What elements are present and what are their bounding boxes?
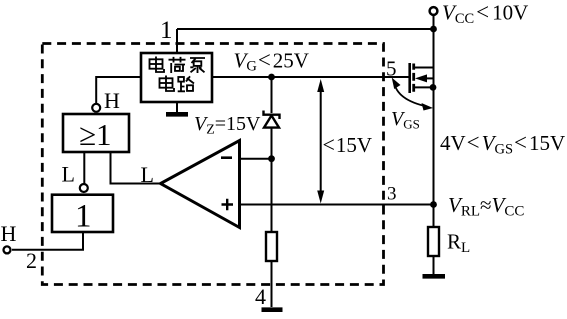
svg-text:2: 2 <box>26 248 37 273</box>
wire buffer to pin 2 terminal <box>12 232 83 250</box>
svg-text:5: 5 <box>386 57 397 81</box>
resistor RL <box>428 227 439 256</box>
terminal pin 2 <box>4 246 11 253</box>
wire resistor to pin4 ground <box>271 261 273 307</box>
junction dot minus/zener <box>268 155 275 162</box>
resistor internal (pin4) <box>266 232 277 261</box>
junction dot Vcc/pin1 <box>430 26 437 33</box>
junction dot source <box>430 84 437 91</box>
MOSFET Q1 gate plate <box>408 63 411 93</box>
ground charge pump (bar) <box>166 112 188 117</box>
zener line upper <box>271 77 273 113</box>
charge pump box U1 <box>141 53 212 102</box>
L bubble <box>80 184 88 192</box>
buffer box 1 <box>52 195 113 232</box>
MOSFET Q1 channel segments <box>412 64 415 92</box>
wire plus input / node 3 <box>240 204 432 206</box>
svg-text:H: H <box>1 221 17 246</box>
荷 (line1) <box>169 57 186 73</box>
zener diode VZ cathode bar <box>264 111 280 120</box>
wire OR to op-amp output <box>111 152 161 184</box>
op-amp plus sign <box>222 199 234 211</box>
zener line lower to resistor <box>271 127 273 232</box>
op-amp U2 triangle <box>161 141 240 228</box>
泵 (line1) <box>190 58 205 73</box>
svg-text:1: 1 <box>160 17 173 44</box>
H bubble <box>92 104 100 112</box>
op-amp minus sign <box>221 156 232 159</box>
ground RL bar <box>423 274 446 279</box>
wire pin 1 vertical <box>176 29 178 53</box>
VGS curved arrow <box>394 82 427 107</box>
Vcc rail down to node 3 <box>433 67 435 205</box>
wire pin 1 horizontal to Vcc rail <box>177 28 434 30</box>
charge pump label 电荷泵电路 <box>150 57 206 92</box>
ground pin 4 bar <box>262 307 283 312</box>
IC boundary dashed box <box>42 44 383 285</box>
junction dot VG/zener <box>268 74 275 81</box>
svg-text:L: L <box>141 162 154 187</box>
svg-text:4: 4 <box>255 284 266 309</box>
电 (line2) <box>160 76 175 92</box>
zener diode VZ anode triangle <box>264 116 279 128</box>
wire minus input to zener line <box>240 158 272 160</box>
svg-text:H: H <box>104 88 120 113</box>
junction dot node 3 <box>430 201 437 208</box>
MOSFET Q1 drain lead <box>415 67 434 69</box>
svg-text:<15V: <15V <box>323 132 373 157</box>
电 (line1) <box>150 57 165 73</box>
MOSFET Q1 source lead <box>415 86 434 88</box>
wire OR bottom to L bubble <box>83 152 85 184</box>
wire node3 to RL / RL to ground <box>433 205 435 275</box>
wire charge pump to H bubble <box>96 77 141 103</box>
路 (line2) <box>178 76 194 91</box>
MOSFET Q1 body arrowhead <box>415 74 427 82</box>
OR gate box >=1 <box>63 114 129 152</box>
svg-text:L: L <box>62 162 75 187</box>
ground charge pump (wire) <box>176 102 178 112</box>
Vcc terminal circle <box>430 7 438 15</box>
svg-text:3: 3 <box>387 184 397 205</box>
MOSFET Q1 body arrow lead <box>423 77 434 79</box>
Vcc rail vertical <box>433 16 435 69</box>
svg-text:1: 1 <box>75 199 92 235</box>
wire VG from charge pump to gate <box>212 76 409 78</box>
<15V arrow (double headed) <box>317 79 324 204</box>
svg-text:≥1: ≥1 <box>79 117 112 152</box>
svg-text:VZ=15V: VZ=15V <box>194 113 261 138</box>
